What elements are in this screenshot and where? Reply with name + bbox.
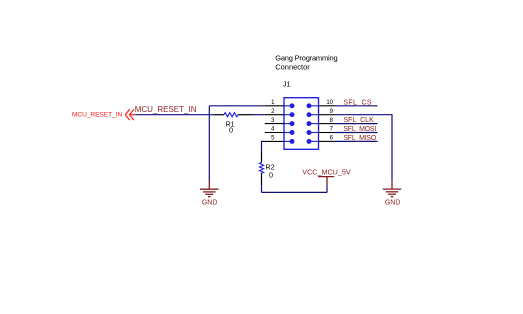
connector J1 body (284, 98, 319, 150)
wire: vertical junction down to GND (208, 106, 210, 181)
svg-text:3: 3 (271, 118, 275, 124)
pin 10 (307, 100, 335, 108)
svg-text:VCC_MCU_5V: VCC_MCU_5V (302, 167, 351, 176)
net alias MCU RESET IN (135, 105, 197, 114)
pin 4 (265, 127, 295, 135)
wire: main horizontal net from chevron to R1 (136, 114, 215, 116)
svg-text:5: 5 (271, 136, 275, 142)
pin 7 (307, 127, 335, 135)
svg-text:9: 9 (330, 109, 334, 115)
svg-text:2: 2 (271, 109, 275, 115)
svg-text:SFL_CLK: SFL_CLK (343, 117, 374, 124)
svg-text:GND: GND (385, 200, 401, 207)
power symbol VCC_MCU_5V (318, 177, 334, 185)
wire: pin 9 to right GND vertical (335, 115, 393, 181)
svg-text:J1: J1 (283, 79, 291, 88)
svg-text:1: 1 (271, 100, 275, 106)
ground GND (right) (383, 180, 402, 196)
ground GND (left) (200, 181, 219, 197)
svg-text:0: 0 (269, 170, 273, 179)
label: Gang Programming Connector heading (275, 54, 337, 72)
svg-text:MCU_RESET_IN: MCU_RESET_IN (135, 105, 197, 114)
svg-text:SFL_CS: SFL_CS (343, 99, 372, 106)
svg-text:MCU_RESET_IN: MCU_RESET_IN (72, 112, 123, 119)
wire: bottom rail from R2 to VCC stem (262, 191, 328, 193)
resistor R2 (260, 150, 275, 185)
svg-text:10: 10 (326, 100, 333, 106)
svg-text:8: 8 (330, 118, 334, 124)
svg-text:7: 7 (330, 127, 334, 133)
wire: pin 5 to R2 top corner (262, 141, 265, 150)
pin 9 (307, 109, 335, 117)
svg-text:Gang Programming: Gang Programming (275, 54, 337, 63)
wire: SFL_MISO net from pin 6 (335, 140, 378, 142)
wire: SFL_CS net from pin 10 (335, 105, 378, 107)
wire: R2 bottom to bottom rail (261, 185, 263, 192)
wire: SFL_MOSI net from pin 7 (335, 132, 378, 134)
svg-text:4: 4 (271, 127, 275, 133)
pin 2 (265, 109, 295, 117)
wire: VCC stem (blue part) (326, 184, 328, 192)
svg-text:GND: GND (202, 200, 218, 207)
pin 1 (265, 100, 295, 108)
svg-text:SFL_MISO: SFL_MISO (343, 135, 376, 142)
svg-text:SFL_MOSI: SFL_MOSI (343, 126, 376, 133)
pin 3 (265, 118, 295, 126)
pin 8 (307, 118, 335, 126)
svg-text:6: 6 (330, 136, 334, 142)
connector J1 reference designator (283, 79, 291, 88)
resistor R1 (215, 113, 253, 135)
pin 6 (307, 136, 335, 144)
svg-text:Connector: Connector (275, 63, 310, 72)
off-page connector chevron symbol (125, 109, 135, 120)
pin 5 (265, 136, 295, 144)
wire: SFL_CLK net from pin 8 (335, 123, 378, 125)
wire: R1 right side to pin 2 (252, 114, 265, 116)
off-page connector MCU_RESET_IN (red name text) (72, 112, 123, 119)
svg-text:0: 0 (229, 126, 233, 135)
wire: pin 1 horizontal (209, 105, 264, 107)
